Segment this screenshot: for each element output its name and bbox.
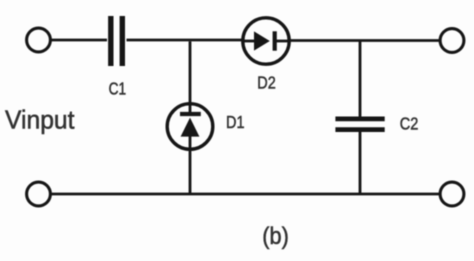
svg-text:C1: C1: [109, 79, 127, 99]
svg-text:D1: D1: [226, 112, 245, 132]
svg-text:C2: C2: [400, 114, 419, 134]
svg-text:Vinput: Vinput: [5, 105, 75, 135]
svg-text:D2: D2: [257, 73, 276, 93]
svg-text:(b): (b): [262, 223, 289, 250]
